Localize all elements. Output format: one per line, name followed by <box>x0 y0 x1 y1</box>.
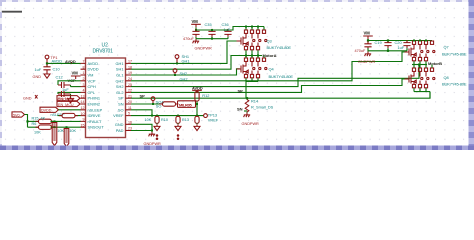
wire GL1 from U2 to Q4 gate <box>131 69 240 75</box>
svg-text:BUK7Y45-80E: BUK7Y45-80E <box>442 82 467 87</box>
transistor Q7 high-side B <box>405 41 467 65</box>
svg-text:1uF: 1uF <box>224 27 231 32</box>
gndpwr below R14 <box>242 112 260 126</box>
global label 5V0 <box>12 112 25 117</box>
power flag VM at U2 pin 1 <box>71 71 81 79</box>
wire GL2 from U2 to Q8 gate <box>131 79 407 92</box>
U2 left pin stubs <box>81 63 86 127</box>
wire U2 SO pin to VREF row <box>131 110 152 116</box>
svg-text:8: 8 <box>83 65 85 69</box>
ground name marks below R9 <box>156 134 159 140</box>
svg-text:R14: R14 <box>251 99 259 104</box>
svg-text:GNDPWR: GNDPWR <box>358 60 376 64</box>
page border right <box>469 0 474 150</box>
svg-text:MILR05: MILR05 <box>179 102 193 107</box>
svg-text:10K: 10K <box>57 129 64 133</box>
capacitor C20 <box>395 40 411 50</box>
svg-text:IDRIVE: IDRIVE <box>88 113 101 118</box>
U2 left pin names <box>88 61 105 130</box>
svg-text:SP: SP <box>140 93 146 98</box>
svg-text:5V0: 5V0 <box>13 113 20 117</box>
resistor R11 sense filter series <box>160 102 179 106</box>
power flag AVDD above R12 <box>192 85 203 93</box>
power flag AVDD <box>65 59 76 64</box>
svg-text:R12: R12 <box>202 93 209 98</box>
svg-text:VREF: VREF <box>208 118 219 123</box>
svg-text:15: 15 <box>81 123 85 127</box>
svg-text:nFAULT: nFAULT <box>88 119 103 124</box>
svg-text:16: 16 <box>128 120 132 124</box>
svg-text:PH_MCU: PH_MCU <box>58 97 74 101</box>
junction C35 top <box>211 29 213 31</box>
junction 5V0/nFAULT <box>26 120 28 122</box>
svg-text:nSLEEP: nSLEEP <box>88 107 103 112</box>
svg-text:GH1: GH1 <box>182 58 190 63</box>
capacitor C36 <box>222 22 232 37</box>
resistor R6 on SNSOUT <box>32 122 55 134</box>
test point TP1 <box>45 55 57 62</box>
svg-text:SH1: SH1 <box>116 67 124 72</box>
svg-text:VM: VM <box>364 31 371 36</box>
capacitor C34 bulk 470uF <box>183 29 200 41</box>
svg-text:C10: C10 <box>53 67 61 72</box>
svg-text:Q8: Q8 <box>444 75 449 80</box>
capacitor C19 <box>375 40 392 48</box>
junction SO/VREF <box>151 115 153 117</box>
junction dots Q3 drain rail <box>245 26 259 28</box>
page border left <box>0 0 2 150</box>
svg-text:9: 9 <box>83 118 85 122</box>
svg-text:GL1: GL1 <box>116 73 123 78</box>
wire CPH row <box>71 86 81 88</box>
gndpwr below C21 <box>358 48 376 64</box>
global label DVDD on nSLEEP row <box>40 107 81 112</box>
junction VM rail at C bulk <box>195 29 197 31</box>
U2 right pin names <box>113 61 124 133</box>
wire VREF from U2 to TP13 <box>131 115 204 117</box>
junction MotorB <box>418 64 420 66</box>
wire SP from U2 to shunt and Q8 source <box>131 92 430 99</box>
svg-text:VREF: VREF <box>113 113 124 118</box>
resistor R17 on IDRIVE <box>59 113 78 117</box>
ground below C10 <box>33 72 51 79</box>
junction C19 top <box>387 39 389 41</box>
svg-text:MotorA: MotorA <box>263 53 277 58</box>
svg-text:SP: SP <box>118 96 124 101</box>
svg-text:DRV8701: DRV8701 <box>93 49 114 55</box>
node MotorA wire <box>244 55 262 57</box>
svg-text:AVDD: AVDD <box>52 58 63 63</box>
svg-text:SH2: SH2 <box>116 84 124 89</box>
svg-text:470uF: 470uF <box>355 49 366 53</box>
resistor R10 filter <box>176 116 189 124</box>
svg-text:10K: 10K <box>34 131 41 135</box>
svg-text:GND: GND <box>23 97 32 101</box>
transistor Q4 low-side A <box>237 56 294 99</box>
resistor R15 pull-up on nFAULT <box>32 116 55 123</box>
wire SN stub to R14 <box>244 110 247 112</box>
junction C35 bottom <box>211 38 213 40</box>
junction divider top <box>196 103 198 105</box>
power flag VM top center <box>191 19 201 27</box>
svg-text:AVDD: AVDD <box>88 61 99 66</box>
svg-text:C19: C19 <box>375 40 382 45</box>
global label PH_MCU on PH/IN1 <box>57 96 80 101</box>
svg-text:GH2: GH2 <box>180 76 188 81</box>
svg-text:GND: GND <box>115 122 124 127</box>
svg-text:1uF: 1uF <box>35 67 42 72</box>
svg-text:R15: R15 <box>32 116 39 120</box>
wire Q8 sources to SP <box>414 92 430 99</box>
svg-text:AVDD: AVDD <box>65 59 76 64</box>
wire ground rail under C35 C36 <box>196 37 228 39</box>
resistor R14 shunt to gndpwr <box>245 98 273 112</box>
svg-text:BUK7Y45-80E: BUK7Y45-80E <box>269 74 294 79</box>
svg-text:BUK7Y45-80E: BUK7Y45-80E <box>442 51 467 56</box>
global label SNSOUT_MCU vertical <box>64 127 76 146</box>
svg-text:PAD: PAD <box>116 128 124 133</box>
wire GH2 from U2 to Q7 gate <box>131 52 407 81</box>
svg-text:Q7: Q7 <box>444 45 449 50</box>
svg-text:CPL: CPL <box>88 90 96 95</box>
wire GH1 from U2 to Q3 gate <box>131 41 238 63</box>
resistor R13b divider low <box>195 116 199 124</box>
wire SH2 from U2 to MotorB node <box>131 65 419 87</box>
U2 right pin stubs <box>126 63 132 130</box>
capacitor C21 bulk 470uF right <box>355 41 372 54</box>
test point TP10 on GH2 <box>173 69 177 76</box>
svg-text:SNSOUT: SNSOUT <box>88 125 105 130</box>
svg-text:GH1: GH1 <box>116 61 124 66</box>
svg-text:13: 13 <box>81 94 85 98</box>
junction AVDD/TP1/C10 <box>46 62 48 64</box>
capacitor C12 flying (horizontal) <box>58 82 71 88</box>
op-amp U2 body (DRV8701 gate driver) <box>86 58 126 138</box>
wire AVDD net <box>47 62 81 64</box>
resistor R9 filter <box>145 116 168 124</box>
svg-text:C35: C35 <box>205 22 212 27</box>
svg-text:12: 12 <box>81 106 85 110</box>
junction MotorA <box>245 55 259 57</box>
wire nFAULT right segment <box>51 120 81 122</box>
svg-text:GNDPWR: GNDPWR <box>195 46 213 50</box>
sheet connection line top left <box>0 11 22 13</box>
transistor Q3 high-side A <box>237 27 292 56</box>
svg-text:GH2: GH2 <box>116 78 124 83</box>
wire 5V0 vertical feed <box>25 115 28 128</box>
svg-text:EN_MCU: EN_MCU <box>58 103 74 107</box>
svg-text:R10: R10 <box>161 118 168 122</box>
power flag VM right <box>363 31 373 39</box>
svg-text:PH/IN1: PH/IN1 <box>88 96 101 101</box>
wire CPL row <box>58 92 81 94</box>
svg-text:R6: R6 <box>32 122 37 126</box>
wire VM rail right to Q7 drains <box>368 39 432 41</box>
junction filter tap 1 <box>156 115 158 117</box>
junction dots Q7 drain rail <box>413 40 427 42</box>
wire VM rail top for C35 C36 <box>196 29 228 31</box>
junction C19 bottom <box>387 50 389 52</box>
wire SH1 from U2 to MotorA node <box>131 56 244 70</box>
wire SN from U2 to sense resistor chain <box>131 103 148 105</box>
U2 right pin numbers <box>128 60 132 131</box>
svg-text:1: 1 <box>83 71 85 75</box>
junction SP at R14 <box>246 97 248 99</box>
capacitor C10 <box>35 63 61 72</box>
test point TP14 on sense node <box>151 97 155 105</box>
svg-text:DVDD: DVDD <box>88 67 99 72</box>
svg-text:SP: SP <box>238 89 244 94</box>
svg-text:EN/IN2: EN/IN2 <box>88 102 101 107</box>
ground below R10 <box>175 123 181 130</box>
svg-text:10K: 10K <box>145 118 152 122</box>
transistor Q8 low-side B <box>405 65 467 92</box>
svg-text:SN: SN <box>118 102 124 107</box>
svg-text:7: 7 <box>83 60 85 64</box>
resistor R12 to AVDD <box>195 92 210 105</box>
svg-text:GND: GND <box>33 75 42 79</box>
wire U2 PAD pin to GNDPWR <box>131 131 152 132</box>
svg-text:MotorB: MotorB <box>428 61 442 66</box>
svg-text:BUK7Y45-80E: BUK7Y45-80E <box>267 45 292 50</box>
wire SNSOUT right segment <box>51 126 81 128</box>
junction VREF row <box>196 115 198 117</box>
svg-text:GNDPWR: GNDPWR <box>242 122 260 126</box>
grid dots <box>0 0 474 150</box>
ground below R9 <box>154 123 160 130</box>
wire U2 GND pin down <box>131 124 152 130</box>
svg-text:1uF: 1uF <box>62 87 69 92</box>
page border top <box>0 0 474 2</box>
ground below C13 <box>58 97 74 103</box>
svg-text:VM: VM <box>88 73 94 78</box>
svg-text:11: 11 <box>128 106 132 110</box>
svg-text:SN: SN <box>237 106 243 111</box>
global label nFAULT_MCU vertical <box>52 121 64 145</box>
svg-text:Q4: Q4 <box>269 67 275 72</box>
wire ground rail under C19 C20 <box>368 48 407 51</box>
wire VCP to flying cap <box>58 81 81 85</box>
svg-text:Q3: Q3 <box>267 39 272 44</box>
svg-text:R13: R13 <box>182 118 189 122</box>
wire VM rail to Q3 drains <box>196 27 264 31</box>
U2 left pin numbers <box>81 60 85 128</box>
junction SNSOUT/vertical label <box>66 126 68 128</box>
junction nFAULT/vertical label <box>54 120 56 122</box>
node MotorB wire <box>412 64 427 66</box>
svg-text:SH2: SH2 <box>180 71 188 76</box>
page border bottom <box>0 146 474 151</box>
wire SNSOUT left segment <box>28 126 39 128</box>
capacitor C13 flying (horizontal) <box>58 91 71 97</box>
svg-text:VM: VM <box>192 19 199 24</box>
svg-text:5: 5 <box>128 112 130 116</box>
svg-text:14: 14 <box>81 100 85 104</box>
wire SN to sense chain <box>131 103 163 105</box>
svg-text:GNDPWR: GNDPWR <box>144 142 162 146</box>
svg-text:4K: 4K <box>41 116 46 120</box>
global label EN_MCU on EN/IN2 <box>57 101 80 106</box>
svg-text:R_Small_DS: R_Small_DS <box>251 105 274 110</box>
svg-text:DVDD: DVDD <box>41 109 52 113</box>
svg-text:4: 4 <box>83 89 85 93</box>
svg-text:VCP: VCP <box>88 78 96 83</box>
junction VM rail at C21 <box>367 39 369 41</box>
svg-text:C12: C12 <box>56 75 63 80</box>
junction GND/PAD <box>151 130 153 132</box>
svg-text:3: 3 <box>83 83 85 87</box>
gndpwr below C34 <box>193 37 212 50</box>
gndpwr symbol below U2 <box>144 132 162 146</box>
ground name marks below R10 <box>177 134 180 140</box>
svg-text:10K: 10K <box>69 129 76 133</box>
wire shunt to divider node <box>196 104 198 116</box>
svg-text:SO: SO <box>118 107 124 112</box>
capacitor C35 <box>205 22 216 37</box>
test point TP13 <box>204 113 219 123</box>
svg-text:1uF: 1uF <box>398 45 405 50</box>
wire nFAULT left segment <box>28 120 39 122</box>
svg-text:GL2: GL2 <box>116 90 123 95</box>
svg-text:23: 23 <box>128 127 132 131</box>
ground below divider <box>194 123 200 130</box>
svg-text:AVDD: AVDD <box>192 85 203 90</box>
test point TP9 on GH1 <box>175 55 179 65</box>
shunt resistor R13 MILR050 <box>178 101 196 108</box>
junction filter tap 2 <box>177 115 179 117</box>
wire IDRIVE <box>58 115 81 117</box>
svg-text:470uF: 470uF <box>183 37 194 41</box>
svg-text:VM: VM <box>72 71 79 76</box>
svg-text:10: 10 <box>81 112 85 116</box>
svg-text:2: 2 <box>83 77 85 81</box>
svg-text:CPH: CPH <box>88 84 96 89</box>
